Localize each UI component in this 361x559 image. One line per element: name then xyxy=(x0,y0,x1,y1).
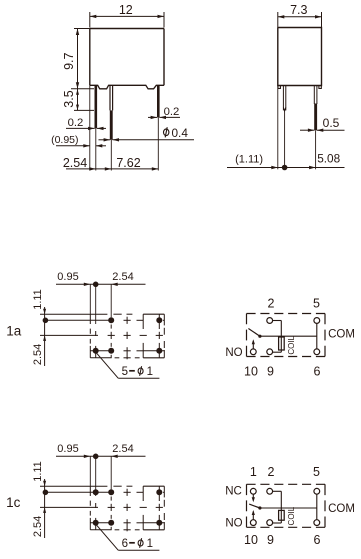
dimension 9.7 (body height) xyxy=(74,28,90,30)
dimension 0.2 (right pin thickness) xyxy=(148,116,157,118)
pin 6 terminal xyxy=(314,520,320,526)
dimension 7.3 (body depth) xyxy=(277,12,279,28)
pattern row1 line xyxy=(45,319,112,321)
pattern grid crosses xyxy=(108,506,115,508)
blade pivot dot xyxy=(258,506,261,509)
relay body front view xyxy=(90,28,164,30)
dimension phi 0.4 (middle pin dia) xyxy=(99,139,111,141)
pattern hole count leader xyxy=(96,352,118,378)
pattern row2 line xyxy=(90,522,113,524)
pin 2 terminal xyxy=(267,318,273,324)
svg-text:2.54: 2.54 xyxy=(32,344,44,365)
svg-text:(1.11): (1.11) xyxy=(235,153,263,165)
svg-text:5: 5 xyxy=(313,297,320,311)
svg-text:0.4: 0.4 xyxy=(172,126,189,140)
pattern top dimension 0.95 / 2.54 xyxy=(56,455,146,457)
pin 5 terminal xyxy=(314,318,320,324)
pin 1 terminal xyxy=(250,488,256,494)
pin 9 terminal xyxy=(267,349,273,355)
svg-text:0.2: 0.2 xyxy=(164,106,180,118)
pattern top dimension 0.95 / 2.54 xyxy=(56,283,146,285)
extension line pin right center xyxy=(157,118,159,171)
pattern case outline dashed bottom edge xyxy=(90,529,111,531)
pin left (front view) xyxy=(95,85,98,128)
pin 9 terminal xyxy=(267,520,273,526)
pattern top extension lines xyxy=(89,284,91,314)
svg-text:2.54: 2.54 xyxy=(32,516,44,537)
contact blade (closed toward NC) xyxy=(249,504,260,508)
svg-text:1.11: 1.11 xyxy=(32,289,44,310)
pattern case top edge line xyxy=(40,485,107,487)
pattern case outline dashed right edge xyxy=(163,486,165,497)
pattern right box column line xyxy=(158,486,160,492)
pattern case outline dashed left edge xyxy=(89,314,91,324)
pattern reference dot xyxy=(43,490,49,496)
extension line pin middle center xyxy=(110,140,112,171)
dimension 12 (body width) xyxy=(89,12,91,28)
coil feed wire from pin 2 xyxy=(273,490,282,492)
svg-text:6: 6 xyxy=(122,538,128,550)
svg-text:0.5: 0.5 xyxy=(323,116,340,130)
svg-text:NC: NC xyxy=(225,486,242,498)
svg-text:9: 9 xyxy=(267,533,274,547)
svg-text:COIL: COIL xyxy=(287,506,296,525)
svg-text:(0.95): (0.95) xyxy=(51,134,78,146)
svg-text:9: 9 xyxy=(267,364,274,378)
extension line side pin left center xyxy=(284,110,286,169)
svg-text:1a: 1a xyxy=(6,323,22,338)
svg-text:10: 10 xyxy=(244,533,258,547)
svg-text:2.54: 2.54 xyxy=(63,156,87,170)
pattern column dashes c2 xyxy=(110,325,112,329)
pattern column dashes c1 xyxy=(95,331,97,336)
extension line body left edge down xyxy=(89,85,91,170)
schematic case dashed box xyxy=(247,313,326,315)
side view standoff feet xyxy=(278,86,280,89)
pattern holes xyxy=(108,489,114,495)
pattern right box column line xyxy=(158,314,160,320)
svg-text:6: 6 xyxy=(314,364,321,378)
NO contact arrow xyxy=(252,512,254,520)
pattern grid crosses xyxy=(108,334,115,336)
svg-text:COIL: COIL xyxy=(287,335,296,354)
pattern mid line xyxy=(40,506,98,508)
pattern left dimension 1.11 / 2.54 xyxy=(44,307,46,342)
pattern row1 line xyxy=(45,491,112,493)
svg-text:7.62: 7.62 xyxy=(116,156,140,170)
pin middle (front view) xyxy=(109,85,111,110)
coil xyxy=(279,510,285,520)
dimension (1.11) / 5.08 baseline xyxy=(227,167,345,169)
svg-text:1c: 1c xyxy=(6,495,21,510)
svg-text:9.7: 9.7 xyxy=(62,52,76,69)
svg-text:3.5: 3.5 xyxy=(62,90,76,107)
pattern mid line xyxy=(40,334,98,336)
pattern holes xyxy=(108,317,114,323)
COM vertical wire pin5-pin6 xyxy=(316,494,318,519)
pattern hole count leader xyxy=(96,524,118,550)
svg-text:1.11: 1.11 xyxy=(32,461,44,482)
extension line side pin right center xyxy=(315,131,317,170)
svg-text:1: 1 xyxy=(147,366,153,378)
extension line pin left center xyxy=(95,129,97,171)
pin 2 terminal xyxy=(267,488,273,494)
pattern column dashes c1 xyxy=(95,503,97,508)
svg-text:2.54: 2.54 xyxy=(112,271,133,283)
pattern right box xyxy=(143,485,164,487)
dimension 3.5 (pin length) xyxy=(74,109,94,111)
pin right (front view) xyxy=(157,85,160,117)
pin 10 terminal xyxy=(250,349,256,355)
svg-text:2.54: 2.54 xyxy=(112,443,133,455)
pattern right box xyxy=(143,313,164,315)
svg-text:0.95: 0.95 xyxy=(57,271,78,283)
relay body side view xyxy=(278,28,322,86)
pin 6 terminal xyxy=(314,349,320,355)
dimension 0.5 (pin thickness side) xyxy=(300,129,314,131)
contact blade (open) xyxy=(248,329,260,337)
coil feed wire from pin 2 xyxy=(273,320,282,322)
svg-text:0.95: 0.95 xyxy=(57,443,78,455)
pattern left dimension 1.11 / 2.54 xyxy=(44,479,46,514)
svg-text:1: 1 xyxy=(250,465,257,479)
pin 5 terminal xyxy=(314,488,320,494)
schematic case dashed box xyxy=(247,483,326,485)
svg-text:12: 12 xyxy=(119,3,133,17)
pattern case outline dashed bottom edge xyxy=(90,357,111,359)
blade pivot dot xyxy=(258,335,261,338)
dimension 0.2 (left pin thickness) xyxy=(66,127,95,129)
svg-text:NO: NO xyxy=(225,347,242,359)
NO contact arrow xyxy=(252,341,254,349)
svg-text:NO: NO xyxy=(225,518,242,530)
svg-text:2: 2 xyxy=(268,465,275,479)
pin left (side view) xyxy=(282,86,284,111)
pattern case outline dashed left edge xyxy=(89,486,91,496)
contact wire to COM xyxy=(260,507,317,509)
svg-text:0.2: 0.2 xyxy=(68,117,84,129)
svg-text:5: 5 xyxy=(122,366,128,378)
svg-text:6: 6 xyxy=(314,533,321,547)
svg-text:7.3: 7.3 xyxy=(290,3,307,17)
dimension (0.95) xyxy=(56,145,90,147)
pin 10 terminal xyxy=(250,520,256,526)
reference dot side view xyxy=(282,165,288,171)
pattern case top edge line xyxy=(40,313,107,315)
coil xyxy=(279,337,285,350)
svg-text:10: 10 xyxy=(244,364,258,378)
pattern row line in right box xyxy=(143,350,164,352)
dimension 2.54 / 7.62 (pin pitch) xyxy=(66,168,158,170)
pattern case outline dashed right edge xyxy=(163,314,165,325)
pattern column dashes c2 xyxy=(110,497,112,501)
pin right (side view) xyxy=(313,86,315,105)
svg-text:5: 5 xyxy=(313,465,320,479)
svg-text:1: 1 xyxy=(147,538,153,550)
pattern row2 line xyxy=(90,350,113,352)
pattern reference dot xyxy=(43,318,49,324)
NC contact arrow xyxy=(252,494,254,500)
svg-text:COM: COM xyxy=(328,329,355,341)
extension line side body left edge down xyxy=(277,86,279,170)
pattern row line in right box xyxy=(143,522,164,524)
COM vertical wire pin5-pin6 xyxy=(316,324,318,349)
svg-text:5.08: 5.08 xyxy=(317,151,340,165)
svg-text:COM: COM xyxy=(328,503,355,515)
contact wire to COM xyxy=(260,335,317,337)
svg-text:2: 2 xyxy=(268,297,275,311)
pattern top extension lines xyxy=(89,456,91,486)
